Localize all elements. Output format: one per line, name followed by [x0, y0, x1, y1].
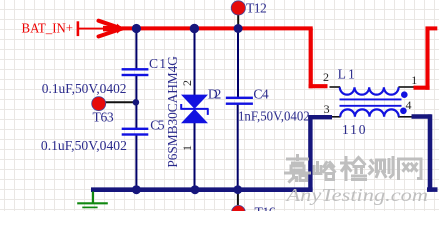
svg-text:2: 2 [323, 70, 329, 84]
svg-text:T12: T12 [246, 0, 267, 15]
svg-text:0.1uF,50V,0402: 0.1uF,50V,0402 [41, 138, 127, 153]
svg-text:T63: T63 [93, 109, 114, 124]
svg-text:0.1uF,50V,0402: 0.1uF,50V,0402 [42, 81, 127, 96]
svg-text:1nF,50V,0402: 1nF,50V,0402 [238, 109, 310, 124]
svg-text:4: 4 [406, 98, 412, 112]
svg-text:2: 2 [180, 80, 194, 86]
svg-text:110: 110 [342, 122, 366, 137]
svg-text:P6SMB30CAHM4G: P6SMB30CAHM4G [165, 56, 180, 168]
svg-text:AnyTesting.com: AnyTesting.com [285, 185, 428, 205]
svg-text:C4: C4 [253, 87, 269, 102]
svg-text:BAT_IN+: BAT_IN+ [22, 21, 74, 36]
svg-text:C5: C5 [150, 117, 165, 132]
svg-text:T16: T16 [255, 204, 276, 211]
svg-text:C1: C1 [149, 56, 166, 71]
svg-text:D2: D2 [208, 86, 222, 101]
svg-text:1: 1 [411, 73, 417, 87]
svg-text:1: 1 [180, 145, 194, 151]
svg-text:3: 3 [324, 102, 330, 116]
